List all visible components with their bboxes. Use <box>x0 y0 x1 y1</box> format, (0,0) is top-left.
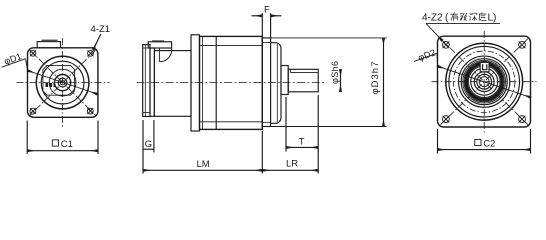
svg-text:φD3h7: φD3h7 <box>370 61 381 95</box>
svg-text:φD1: φD1 <box>3 51 23 66</box>
svg-text:F: F <box>264 4 270 15</box>
svg-text:4-Z2: 4-Z2 <box>422 13 443 24</box>
svg-text:(: ( <box>445 13 449 24</box>
svg-text:C1: C1 <box>61 139 73 150</box>
svg-text:4-Z1: 4-Z1 <box>91 24 111 35</box>
svg-text:L): L) <box>488 13 497 24</box>
svg-text:G: G <box>145 139 152 150</box>
svg-text:φSh6: φSh6 <box>330 61 340 84</box>
svg-text:φD2: φD2 <box>417 47 437 62</box>
svg-text:T: T <box>299 137 305 148</box>
svg-text:LR: LR <box>286 159 298 170</box>
svg-text:LM: LM <box>197 159 210 170</box>
svg-text:C2: C2 <box>483 138 495 149</box>
